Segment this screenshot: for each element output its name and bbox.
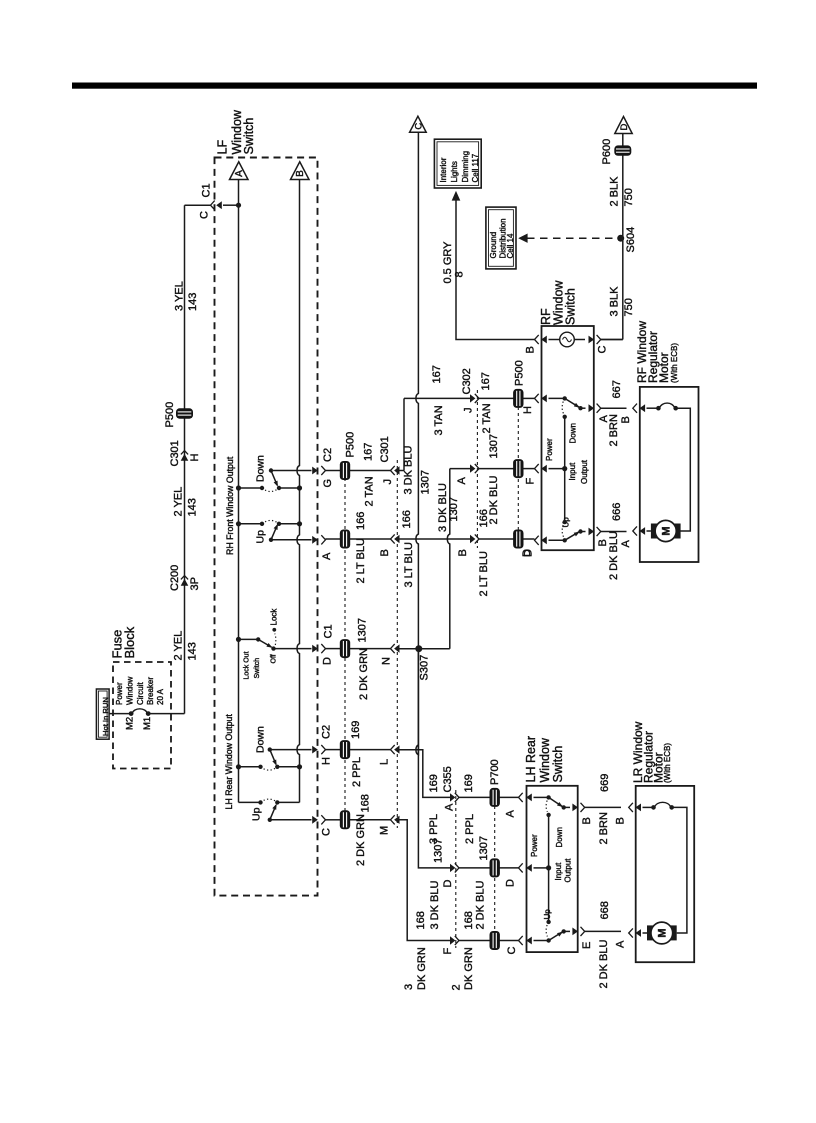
svg-text:D: D (505, 879, 517, 887)
svg-text:C1: C1 (201, 183, 213, 197)
svg-text:J: J (382, 479, 394, 485)
wire DK GRN 1307 row D to C301 N (326, 648, 341, 650)
switch LH Up (C row) (534, 920, 571, 943)
svg-text:Lock Out: Lock Out (244, 651, 251, 679)
LH Rear Window Switch box (527, 786, 578, 952)
svg-text:Motor: Motor (657, 352, 671, 383)
pin D/C1 at LF box right edge (312, 644, 325, 653)
wire 2 DK BLU 666 RF switch B to motor A (601, 531, 627, 533)
wire 2 DK GRN 168 row C to C301 M (326, 819, 341, 821)
svg-text:P600: P600 (601, 139, 613, 165)
svg-text:668: 668 (599, 901, 611, 919)
wire 2 PPL 169 row H to C301 L (326, 749, 341, 751)
svg-text:1307: 1307 (357, 618, 369, 642)
RF Window Switch box (542, 326, 594, 550)
svg-text:Switch: Switch (564, 288, 578, 325)
connector C301 pin L (391, 745, 400, 754)
svg-text:M: M (657, 928, 669, 937)
svg-text:C2: C2 (321, 725, 333, 739)
svg-text:Block: Block (122, 626, 137, 658)
svg-text:169: 169 (350, 721, 362, 739)
wire pin C1 to node on wire A (223, 204, 239, 206)
dashed ground reference wire to S604 (520, 235, 527, 242)
switch LH rear Down (236, 747, 312, 770)
motor M armature LR (647, 922, 677, 944)
wire ECB to motor armature (676, 408, 691, 531)
wire C301 N to splice S307 (399, 648, 419, 650)
svg-text:167: 167 (431, 365, 443, 383)
wire corner to LF switch pin C1 (185, 204, 211, 206)
svg-text:B: B (615, 817, 627, 824)
connector C355 pin D (450, 863, 459, 872)
svg-text:Down: Down (255, 455, 267, 482)
pin H at RF box left edge (535, 394, 547, 403)
svg-text:H: H (321, 757, 333, 765)
svg-text:Hot In RUN: Hot In RUN (101, 697, 110, 736)
wire C301 M corner down to C355 row C (399, 820, 451, 941)
svg-text:B: B (457, 549, 469, 556)
svg-text:P500: P500 (514, 360, 526, 386)
splice S307 (415, 645, 422, 652)
connector C200 pin 3P on feed wire (181, 576, 189, 586)
svg-text:168: 168 (415, 911, 427, 929)
svg-text:2 BLK: 2 BLK (609, 176, 621, 207)
svg-text:2: 2 (450, 984, 462, 990)
pin B at LR motor (629, 803, 641, 812)
wire corner up from C301 J to row H (399, 470, 404, 472)
wire motor A pin to armature (643, 932, 648, 934)
pin A at LR motor (629, 928, 641, 937)
ECB element in RF motor (656, 406, 661, 411)
fuse block dashed box (113, 662, 171, 769)
svg-text:A: A (620, 540, 632, 548)
svg-text:Input: Input (554, 862, 563, 881)
svg-text:2 DK BLU: 2 DK BLU (598, 940, 610, 989)
svg-text:D: D (523, 549, 535, 557)
svg-text:C: C (321, 828, 333, 836)
svg-text:Down: Down (555, 827, 564, 847)
connector C302 pin B (470, 534, 479, 543)
svg-text:M1: M1 (142, 717, 153, 730)
pin E at LH right edge (572, 927, 584, 936)
svg-text:C: C (199, 211, 211, 219)
C301 dashed connector line (396, 460, 398, 828)
svg-text:750: 750 (623, 298, 635, 316)
wire 0.5 GRY 8 from RF switch B to interior lights (456, 200, 535, 340)
wire motor B to ECB (647, 407, 659, 409)
connector C301 pin B (391, 534, 400, 543)
circuit breaker inside RF switch (560, 332, 575, 347)
svg-text:C355: C355 (442, 766, 454, 792)
node LH power input (546, 865, 551, 870)
pin C at LH box left edge (519, 936, 532, 945)
wire 2 TAN 167 row G to C301 J (326, 470, 341, 472)
pin H/C2 at LF box right edge (312, 745, 325, 754)
pin B at RF motor (633, 404, 645, 413)
svg-text:1307: 1307 (433, 839, 445, 863)
LF Window Switch dashed box (215, 158, 318, 896)
svg-text:1307: 1307 (478, 836, 490, 860)
svg-text:Window: Window (538, 737, 552, 782)
svg-text:Up: Up (251, 807, 263, 821)
svg-text:E: E (581, 942, 593, 949)
connector C301 pin H on feed wire (181, 451, 189, 461)
svg-text:DK GRN: DK GRN (463, 947, 475, 990)
svg-text:Down: Down (569, 423, 578, 443)
connector C355 pin A (450, 793, 459, 802)
svg-text:Interior: Interior (439, 157, 448, 182)
svg-text:3 YEL: 3 YEL (173, 281, 185, 311)
svg-text:Cell 14: Cell 14 (506, 233, 515, 258)
pin D at LH box left edge (519, 863, 532, 872)
wire 2 BRN 669 LH switch B to motor B (585, 806, 621, 808)
P500 dashed line at RF (517, 407, 519, 531)
svg-text:3 BLK: 3 BLK (609, 286, 621, 317)
svg-text:2 LT BLU: 2 LT BLU (478, 551, 490, 597)
wire C355 D to LH pin D (459, 867, 490, 869)
connector P700 on A row (490, 788, 500, 807)
switch RF Up (D row) (549, 520, 586, 543)
svg-text:167: 167 (363, 443, 375, 461)
svg-text:S604: S604 (625, 227, 637, 253)
pin B at LH right edge (572, 803, 584, 812)
svg-text:Up: Up (255, 530, 267, 544)
svg-text:2 PPL: 2 PPL (464, 814, 476, 844)
wire ECB to motor armature (672, 807, 687, 933)
switch RF Down (H row) (549, 396, 586, 419)
RF Window Regulator Motor box (640, 387, 699, 562)
pin B at RF box left edge (535, 335, 547, 344)
svg-text:143: 143 (187, 498, 199, 516)
wire C302 J to RF pin H (479, 397, 514, 399)
svg-text:2 DK GRN: 2 DK GRN (358, 648, 370, 700)
svg-text:1307: 1307 (488, 434, 500, 458)
svg-text:C: C (597, 346, 609, 354)
svg-text:A: A (444, 803, 456, 811)
P500 dashed connector line (344, 478, 346, 812)
svg-text:B: B (581, 817, 593, 824)
svg-text:Input: Input (568, 462, 577, 481)
svg-text:F: F (525, 478, 537, 485)
svg-text:0.5 GRY: 0.5 GRY (442, 241, 454, 284)
svg-text:2 BRN: 2 BRN (598, 812, 610, 844)
page connector triangle D (615, 117, 632, 134)
label Hot In RUN box (96, 689, 109, 739)
svg-text:Switch: Switch (242, 118, 256, 155)
svg-text:C301: C301 (169, 440, 181, 466)
connector C301 pin J (391, 466, 400, 475)
switch LH Down (A row) (534, 795, 571, 817)
C302 dashed connector line (476, 390, 478, 548)
svg-text:C1: C1 (323, 624, 335, 638)
pin A at LH box left edge (519, 793, 532, 802)
svg-text:1307: 1307 (448, 497, 460, 521)
wire C302 B to RF pin D (479, 538, 514, 540)
circuit breaker 20A element (129, 711, 134, 716)
svg-text:H: H (522, 406, 534, 414)
svg-text:Down: Down (255, 726, 267, 753)
svg-text:168: 168 (359, 794, 371, 812)
svg-text:2 TAN: 2 TAN (481, 403, 493, 433)
svg-text:RH Front Window Output: RH Front Window Output (225, 456, 235, 555)
svg-text:M: M (379, 826, 391, 835)
connector P500 on C row (340, 810, 350, 829)
svg-text:167: 167 (480, 372, 492, 390)
switch Lock Out (236, 628, 312, 651)
svg-text:B: B (379, 549, 391, 556)
svg-text:P500: P500 (345, 432, 357, 458)
svg-text:3: 3 (403, 984, 415, 990)
connector C355 pin C (450, 936, 459, 945)
wire pin D to internal bus (534, 867, 549, 869)
svg-text:3 DK BLU: 3 DK BLU (403, 446, 415, 495)
svg-text:B: B (620, 416, 632, 423)
svg-text:D: D (442, 880, 454, 888)
svg-text:143: 143 (187, 293, 199, 311)
svg-text:3P: 3P (189, 577, 201, 590)
wire C355 C to LH pin C (459, 940, 490, 942)
page connector triangle A (230, 162, 249, 180)
svg-text:Dimming: Dimming (461, 151, 470, 183)
connector P700 on D row (490, 858, 500, 877)
page header rule (72, 83, 757, 89)
wire LT BLU 166 row A (326, 538, 341, 540)
svg-text:C200: C200 (169, 565, 181, 591)
svg-text:3 DK BLU: 3 DK BLU (429, 881, 441, 930)
switch LH rear Up (258, 799, 311, 822)
connector C302 pin J (470, 394, 479, 403)
svg-text:B: B (525, 346, 537, 353)
svg-text:Output: Output (580, 459, 589, 484)
connector C302 pin A (470, 464, 479, 473)
connector P500 inline on feed wire (176, 408, 193, 418)
wire 2 DK BLU 668 LH switch E to motor A (585, 930, 621, 932)
svg-text:A: A (234, 170, 245, 177)
svg-text:P500: P500 (164, 402, 176, 428)
connector P500 on G row (340, 461, 350, 480)
svg-text:2 BRN: 2 BRN (608, 414, 620, 446)
wire C301 B to C302 B (399, 538, 471, 540)
arrow up into interior lights box (453, 192, 460, 200)
pin A arrow at RF right edge (589, 404, 601, 413)
svg-text:(With ECB): (With ECB) (663, 743, 672, 783)
wire BLK 750 ground drop (622, 134, 624, 340)
pin F at RF box left edge (535, 464, 547, 473)
svg-text:2 PPL: 2 PPL (351, 757, 363, 787)
svg-text:Ground: Ground (489, 232, 498, 259)
svg-text:2 DK BLU: 2 DK BLU (488, 476, 500, 525)
P700 dashed connector line (494, 806, 496, 932)
svg-text:169: 169 (463, 774, 475, 792)
connector P500 on RF D row (513, 530, 523, 549)
connector P500 on A row (340, 530, 350, 549)
svg-text:C301: C301 (379, 436, 391, 462)
switch RH front Up (236, 520, 312, 542)
pin C at RF box right edge (589, 335, 601, 344)
svg-text:D: D (322, 657, 334, 665)
svg-text:Power: Power (545, 438, 554, 461)
svg-text:LH Rear: LH Rear (524, 736, 538, 783)
pin C1/C at LF box left edge (211, 201, 222, 210)
svg-text:S307: S307 (419, 655, 431, 681)
wire RF pin C to ground drop corner (601, 339, 623, 341)
svg-text:D: D (619, 123, 630, 130)
wire 3 DK BLU 1307 S307 down corner to C355 row D (418, 649, 450, 868)
wire RF internal power feed vertical (564, 417, 566, 522)
svg-text:750: 750 (623, 188, 635, 206)
svg-text:N: N (381, 657, 393, 665)
svg-text:Switch: Switch (254, 658, 261, 679)
connector C301 pin N (391, 644, 400, 653)
wire motor B to ECB (643, 806, 654, 808)
connector P500 on RF H row (513, 389, 523, 408)
svg-text:C: C (506, 947, 518, 955)
motor M armature RF (651, 520, 681, 541)
svg-text:(With ECB): (With ECB) (670, 343, 679, 383)
svg-text:169: 169 (428, 774, 440, 792)
svg-text:Cell 117: Cell 117 (471, 153, 480, 182)
svg-text:Window: Window (126, 676, 135, 705)
svg-text:8: 8 (454, 271, 466, 277)
svg-text:G: G (322, 479, 334, 488)
svg-text:168: 168 (463, 911, 475, 929)
svg-text:LF: LF (215, 140, 229, 155)
svg-text:667: 667 (611, 380, 623, 398)
pin A at LF box right edge (312, 535, 325, 544)
wire pin F to internal bus (549, 468, 565, 470)
svg-text:166: 166 (355, 512, 367, 530)
svg-text:2 YEL: 2 YEL (173, 631, 185, 661)
pin D at RF box left edge (535, 536, 547, 545)
wire A vertical bus in LF switch (238, 180, 240, 803)
pin G at LF box right edge (312, 466, 325, 475)
svg-text:Output: Output (564, 858, 573, 883)
svg-text:LH Rear Window Output: LH Rear Window Output (224, 714, 234, 810)
connector P500 on D row (340, 639, 350, 658)
wire motor A pin to armature (647, 530, 651, 532)
svg-text:Power: Power (115, 682, 124, 705)
svg-text:Up: Up (543, 909, 552, 920)
svg-text:A: A (615, 940, 627, 948)
svg-text:C: C (413, 123, 424, 130)
pin C at LF box right edge (312, 815, 325, 824)
connector C301 pin M (391, 815, 400, 824)
svg-text:A: A (321, 552, 333, 560)
svg-text:F: F (442, 948, 454, 955)
wire C302 A to RF pin F (479, 468, 514, 470)
svg-text:A: A (505, 810, 517, 818)
connector P500 on H row (340, 740, 350, 759)
svg-text:B: B (295, 170, 306, 177)
wire S307 right branch to RF power feed (419, 648, 450, 650)
page connector triangle B (291, 162, 310, 180)
svg-text:M: M (661, 526, 673, 535)
svg-text:669: 669 (599, 774, 611, 792)
svg-text:2 TAN: 2 TAN (364, 476, 376, 506)
wire C355 A to LH pin A (459, 796, 490, 798)
wire Hot In RUN to breaker M2 (109, 713, 131, 715)
connector P600 (614, 145, 631, 155)
svg-text:166: 166 (401, 510, 413, 528)
splice S604 (617, 235, 624, 242)
svg-text:DK GRN: DK GRN (416, 947, 428, 990)
svg-text:Off: Off (271, 654, 278, 663)
svg-text:C2: C2 (322, 448, 334, 462)
svg-text:Lock: Lock (270, 608, 279, 626)
svg-text:L: L (379, 759, 391, 765)
svg-text:H: H (189, 454, 201, 462)
svg-text:Power: Power (530, 834, 539, 857)
svg-text:Breaker: Breaker (146, 677, 155, 705)
pin B at RF right edge (589, 527, 601, 536)
svg-text:1307: 1307 (420, 470, 432, 494)
node junction at wire A top (236, 203, 241, 208)
page connector triangle C (410, 116, 427, 132)
svg-text:A: A (456, 477, 468, 485)
svg-text:Circuit: Circuit (136, 682, 145, 705)
connector P500 on RF F row (513, 459, 523, 478)
Interior Lights Dimming Cell 117 box (434, 139, 481, 188)
svg-text:M2: M2 (125, 717, 136, 730)
wire B vertical bus in LF switch (297, 180, 299, 803)
svg-text:3 LT BLU: 3 LT BLU (403, 542, 415, 588)
connector P700 on C row (490, 931, 500, 950)
C355 dashed connector line (455, 790, 457, 948)
ECB element in LR motor (651, 805, 656, 810)
svg-text:P700: P700 (489, 759, 501, 785)
wire LH internal power vertical (548, 815, 550, 922)
svg-text:2 YEL: 2 YEL (173, 487, 185, 517)
wire C301 L corner down to C355 row A (399, 750, 451, 798)
pin A at RF motor (633, 526, 645, 535)
svg-text:20 A: 20 A (156, 688, 165, 705)
wire 2 YEL/3 YEL vertical feed from fuse block to LF switch C1 (184, 205, 186, 713)
LR Window Regulator Motor box (636, 786, 695, 962)
svg-text:666: 666 (611, 503, 623, 521)
svg-text:2 DK GRN: 2 DK GRN (355, 814, 367, 866)
wire riser from S307 branch to C302 A row (447, 469, 449, 649)
svg-text:C302: C302 (461, 368, 473, 394)
wire 2 BRN 667 RF switch A to motor B (601, 407, 627, 409)
wire M1 to feed wire corner (148, 713, 184, 715)
Ground Distribution Cell 14 box (486, 207, 516, 269)
svg-text:2 LT BLU: 2 LT BLU (355, 538, 367, 584)
svg-text:J: J (463, 408, 475, 414)
wire A corner to LH rear up terminal (239, 801, 261, 803)
svg-text:Switch: Switch (551, 746, 565, 783)
wire corner to C302 pin A (450, 468, 471, 470)
wire 3 DK BLU 1307 from triangle C down to S307 (416, 132, 418, 755)
node RF power input (562, 466, 567, 471)
svg-text:2 DK BLU: 2 DK BLU (475, 881, 487, 930)
switch RH front Down (236, 468, 312, 491)
svg-text:3 TAN: 3 TAN (433, 405, 445, 435)
svg-text:143: 143 (187, 642, 199, 660)
svg-text:Lights: Lights (450, 161, 459, 182)
svg-text:2 DK BLU: 2 DK BLU (608, 531, 620, 580)
